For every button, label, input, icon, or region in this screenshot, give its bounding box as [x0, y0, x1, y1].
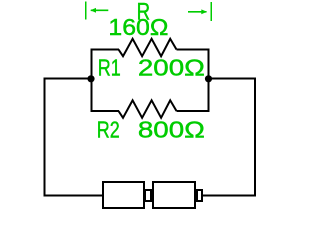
- svg-text:R2: R2: [97, 117, 120, 143]
- battery B1 right cell: [153, 182, 195, 208]
- battery B1 right terminal nub: [197, 190, 202, 201]
- dimension tick bar right: [210, 2, 212, 21]
- wire bottom branch left stub: [90, 110, 119, 112]
- battery B1 middle terminal nub: [145, 190, 151, 201]
- svg-text:200Ω: 200Ω: [138, 55, 205, 81]
- dimension arrow right (pointing right): [188, 9, 207, 14]
- node A junction dot (left): [87, 75, 94, 82]
- wire right vertical of outer loop: [254, 78, 256, 197]
- wire top branch left stub: [90, 49, 119, 51]
- wire bottom branch right stub: [177, 110, 210, 112]
- wire parallel-box right vertical: [208, 49, 210, 113]
- dimension arrow left (pointing left): [90, 8, 108, 13]
- dimension tick bar left: [85, 2, 87, 20]
- wire middle right: node B to outer loop: [208, 78, 256, 80]
- resistor R1 zigzag: [119, 39, 177, 56]
- wire bottom right segment: [201, 195, 256, 197]
- svg-text:R1: R1: [98, 55, 121, 81]
- wire parallel-box left vertical: [90, 49, 92, 113]
- wire bottom left segment: [44, 195, 104, 197]
- svg-text:800Ω: 800Ω: [138, 117, 205, 143]
- battery B1 left cell: [103, 182, 144, 208]
- wire left vertical of outer loop: [44, 78, 46, 197]
- resistor R2 zigzag: [119, 100, 177, 118]
- wire middle left: node A to outer loop: [44, 78, 92, 80]
- svg-text:160Ω: 160Ω: [108, 14, 168, 40]
- node B junction dot (right): [205, 75, 212, 82]
- wire top branch right stub: [177, 49, 210, 51]
